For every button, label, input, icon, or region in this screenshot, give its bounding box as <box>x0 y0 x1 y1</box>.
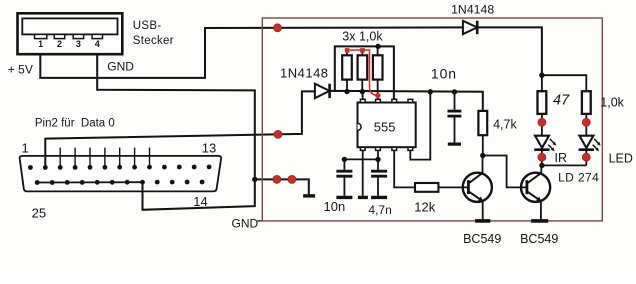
diode D2 1N4148 (top) <box>463 21 477 34</box>
wire to second LED branch <box>542 75 586 91</box>
node dot C1 top <box>342 157 347 162</box>
svg-text:LD 274: LD 274 <box>558 170 599 184</box>
wire GND: USB pin4 down, right, down to junction <box>97 54 255 210</box>
svg-text:1: 1 <box>22 140 29 155</box>
svg-text:BC549: BC549 <box>520 232 558 246</box>
node rail junction R2/pin <box>360 89 365 94</box>
wire 555 bottom pin4 riser to rail <box>410 92 430 160</box>
node red dot 2 on GND wire <box>288 175 296 183</box>
red schematic frame box <box>262 18 602 221</box>
wire R6 to LED1 <box>541 114 543 136</box>
resistor R7 1,0k <box>582 91 591 114</box>
node rail junction R1 <box>344 89 349 94</box>
transistor Q2 BC549 <box>521 165 550 219</box>
node red dot above LED2 <box>582 118 590 126</box>
wire R7 to LED2 <box>585 114 587 136</box>
wire diode D2 to LED branch <box>477 27 542 75</box>
red jumper wire R1/R2 tops to 555 pin 2 <box>345 48 381 98</box>
node GND junction at DB25 net <box>252 177 257 182</box>
svg-text:47: 47 <box>553 93 570 109</box>
label USB-Stecker <box>133 20 174 47</box>
node junction LED branches <box>539 73 544 78</box>
ground symbol under C2 <box>371 196 387 199</box>
svg-text:10n: 10n <box>324 199 346 214</box>
svg-text:13: 13 <box>202 141 216 156</box>
node rail junction pin5 riser <box>428 89 433 94</box>
svg-text:IR: IR <box>555 151 568 165</box>
wire GND horizontal into box to ground symbol <box>255 179 309 194</box>
555 bottom pins <box>360 147 412 150</box>
node dot C2 top <box>375 157 380 162</box>
resistor R2 1,0k <box>358 50 368 92</box>
DB25 parallel port connector X1 <box>20 156 221 192</box>
wire +5V: USB pin1 down, right, up, top rail to diode D2 <box>40 27 463 78</box>
ground bar Q2 emitter <box>531 219 548 223</box>
wire 12k to Q1 base <box>438 186 468 188</box>
capacitor C3 10n (right of 555) <box>448 92 462 143</box>
node red dot 1 on GND wire <box>273 175 281 183</box>
USB pin numbers 1-4 <box>38 39 100 49</box>
svg-text:LED: LED <box>609 152 633 166</box>
capacitor C2 4,7n <box>371 171 387 196</box>
DB25 data pin ticks (pins 2-9) <box>45 148 149 168</box>
svg-text:Pin2 für Data 0: Pin2 für Data 0 <box>35 118 115 130</box>
DB25 bottom row pins 14-25 <box>35 180 205 185</box>
op-amp/timer U1 555 <box>358 103 416 148</box>
wire junction to Q2 base <box>483 156 527 188</box>
svg-text:555: 555 <box>374 119 396 134</box>
LED D3 IR LD274 <box>534 136 556 152</box>
node red dot above LED1 <box>538 118 546 126</box>
wire 555 bottom pin2 to capacitor C2 <box>377 150 379 170</box>
USB connector J1 <box>18 13 123 54</box>
resistor R1 1,0k <box>342 50 352 92</box>
wire capacitor tie line C1-C2 <box>344 158 378 160</box>
LED D4 <box>579 136 601 152</box>
svg-text:Stecker: Stecker <box>133 35 174 47</box>
capacitor C1 10n <box>336 159 352 196</box>
diode D1 1N4148 (left) <box>315 84 330 98</box>
transistor Q1 BC549 <box>463 156 492 220</box>
svg-text:1: 1 <box>38 39 43 49</box>
resistor R4 12k <box>415 183 438 192</box>
node red dot below LED2 <box>582 153 590 161</box>
wire junction down to resistor 47 <box>541 75 543 91</box>
node junction 4,7k / Q1 collector <box>480 153 485 158</box>
svg-text:10n: 10n <box>431 65 457 81</box>
wire 555 bottom pin3 to resistor 12k <box>394 150 415 187</box>
wire internal supply rail <box>330 91 483 111</box>
svg-text:4,7k: 4,7k <box>493 117 517 131</box>
wire ground bus of DB25 bottom row <box>37 181 142 183</box>
node red dot on +5V rail <box>274 24 282 32</box>
wire LED cathode tie <box>542 164 586 166</box>
ground symbol near DB25 GND wire <box>303 194 315 197</box>
svg-text:GND: GND <box>232 216 259 230</box>
svg-text:25: 25 <box>32 206 46 221</box>
svg-text:BC549: BC549 <box>463 232 501 246</box>
wire LED2 cathode down <box>585 150 587 166</box>
svg-text:+ 5V: + 5V <box>8 63 33 77</box>
svg-text:1N4148: 1N4148 <box>280 65 329 80</box>
node red dot on Pin2 wire <box>274 130 282 138</box>
wire 555 pin top1 to rail <box>362 92 364 100</box>
wire LED1 cathode down <box>541 150 543 166</box>
svg-text:4,7n: 4,7n <box>368 203 391 217</box>
resistor R6 47 <box>538 91 547 114</box>
resistor R3 1,0k <box>373 46 383 99</box>
node rail junction C3 <box>452 89 457 94</box>
ground bar Q1 emitter <box>475 219 490 223</box>
svg-text:1,0k: 1,0k <box>600 96 624 110</box>
wire Pin2/Data0 from DB25 pin2 to diode D1 anode <box>45 91 315 167</box>
svg-text:2: 2 <box>57 39 62 49</box>
svg-text:3x 1,0k: 3x 1,0k <box>342 29 383 43</box>
node red dot below LED1 <box>538 153 546 161</box>
wire 555 bottom pin1 to ground <box>362 150 364 196</box>
svg-text:1N4148: 1N4148 <box>451 3 494 17</box>
svg-text:USB-: USB- <box>133 20 162 32</box>
ground symbol under C1 <box>336 196 352 199</box>
node dot on frame top (R3) <box>375 44 380 49</box>
svg-text:14: 14 <box>193 194 207 209</box>
svg-text:12k: 12k <box>414 199 435 214</box>
wire frame connecting 1,0k resistor tops to 555 <box>335 46 394 99</box>
svg-text:GND: GND <box>107 60 134 74</box>
svg-text:4: 4 <box>95 39 100 49</box>
DB25 top row pins 1-13 <box>28 165 212 170</box>
svg-text:3: 3 <box>76 39 81 49</box>
ground symbol under C3 <box>448 143 461 146</box>
555 top pins <box>360 99 412 102</box>
wire tick from GND label to box corner <box>257 220 262 222</box>
ground symbol under 555 pin <box>358 196 368 199</box>
resistor R5 4,7k <box>478 111 487 156</box>
node junction LED cathodes <box>539 163 544 168</box>
